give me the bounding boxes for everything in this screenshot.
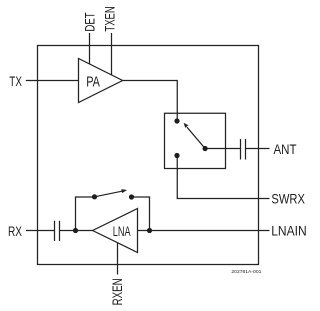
node sw-top-left [174,118,179,123]
svg-text:RXEN: RXEN [110,278,125,305]
wire TXEN line [111,33,113,75]
switch arm main [187,127,205,148]
svg-text:LNA: LNA [113,224,131,239]
arrowhead bypass [121,189,127,193]
wire TX lead [26,80,79,82]
svg-text:TX: TX [9,74,22,89]
wire LNAIN line [138,230,270,232]
switch arm bypass [95,191,123,197]
svg-text:PA: PA [86,74,100,90]
node sw-bottom-left [174,153,179,158]
capacitor C-RX [54,221,56,241]
wire ANT line [205,148,240,150]
svg-text:LNAIN: LNAIN [271,224,307,239]
outer chip box [38,46,259,265]
wire RXEN line [117,243,119,275]
svg-text:202781A-001: 202781A-001 [231,269,261,275]
op-amp PA [79,59,123,103]
wire RX lead [26,230,55,232]
node sw-right [203,146,208,151]
svg-text:DET: DET [83,12,98,31]
wire PA output [123,81,178,122]
svg-text:SWRX: SWRX [271,192,305,207]
wire bypass rail left [76,197,95,231]
node bypass-left [92,194,97,199]
wire SWRX line [177,156,269,199]
node bypass-right [129,194,134,199]
wire DET line [89,33,91,64]
switch box [165,113,226,168]
node RX-cap [73,228,78,233]
node LNA-in [147,228,152,233]
svg-text:ANT: ANT [274,142,297,157]
wire bypass rail right [132,197,150,231]
arrowhead main switch [184,123,189,128]
capacitor C-ANT [240,139,242,160]
op-amp LNA [93,209,138,253]
svg-text:TXEN: TXEN [102,6,117,31]
svg-text:RX: RX [8,224,22,239]
